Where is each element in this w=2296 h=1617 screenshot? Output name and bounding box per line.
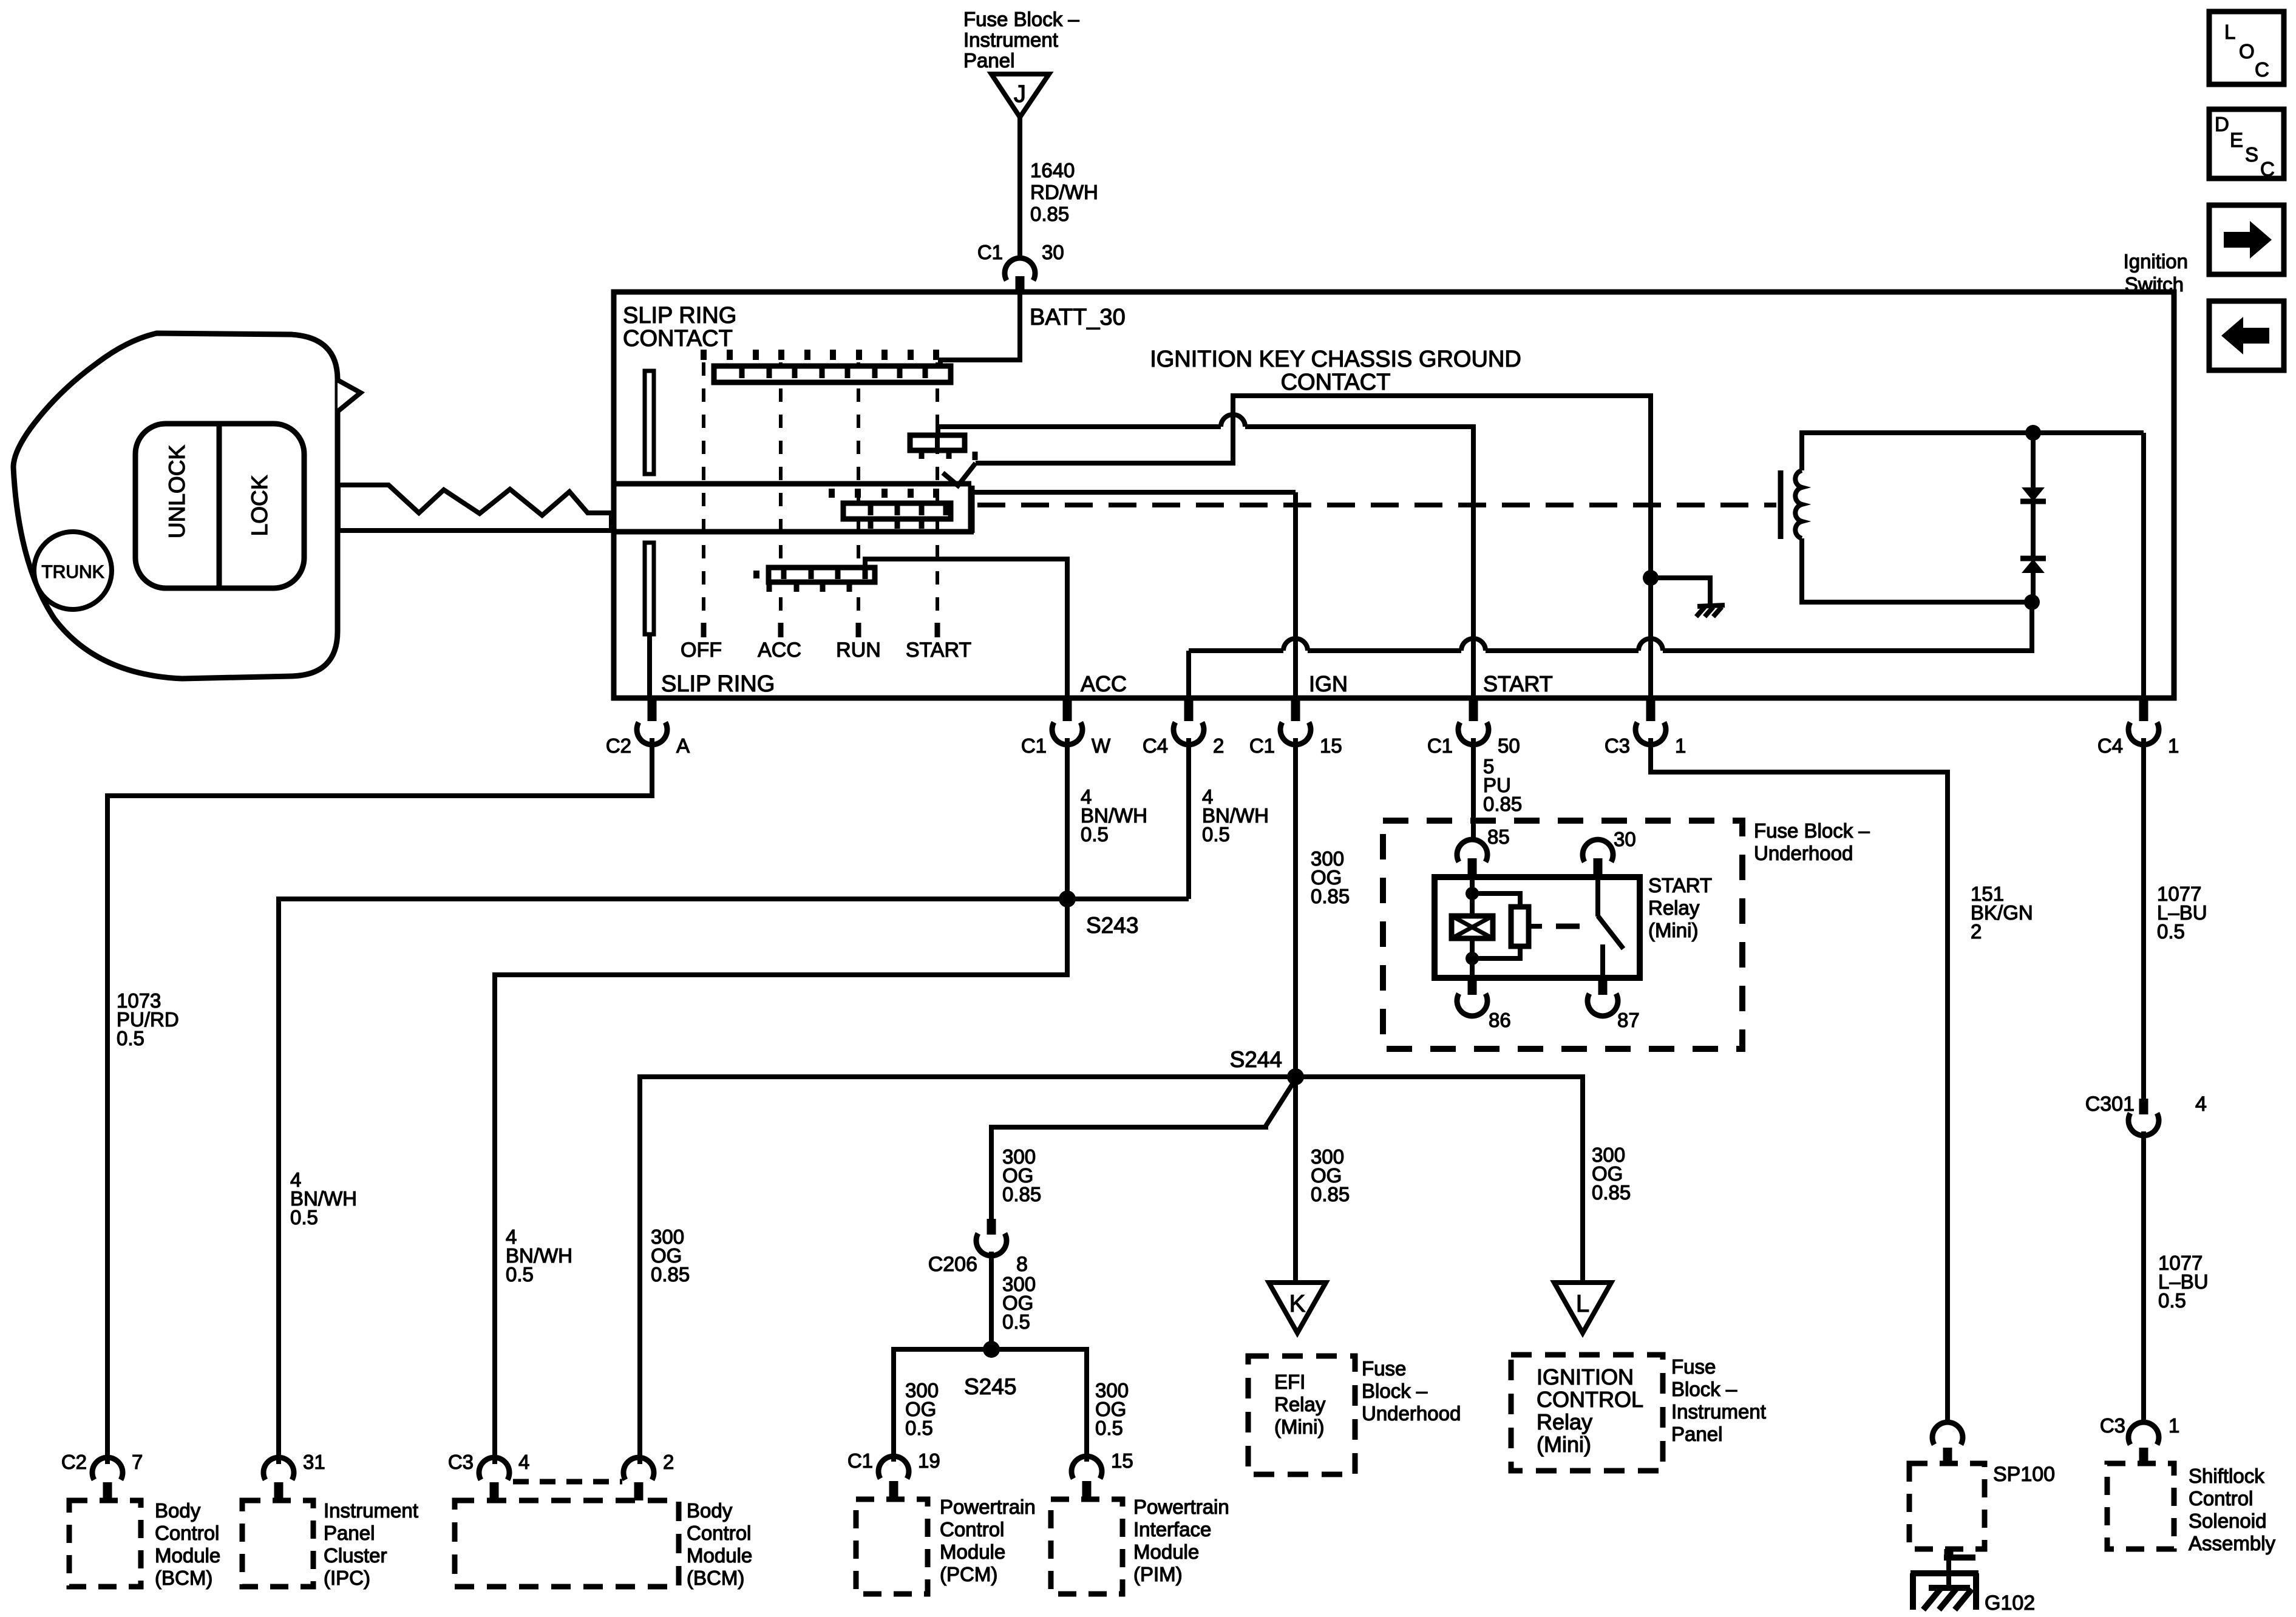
transponder exciter coil <box>1781 433 2144 602</box>
svg-text:87: 87 <box>1617 1009 1640 1031</box>
connector C4 pin 2 <box>1173 698 1204 745</box>
label: Powertrain Control Module (PCM) <box>940 1496 1036 1585</box>
svg-text:4: 4 <box>2195 1093 2207 1116</box>
svg-text:W: W <box>1092 734 1111 757</box>
svg-text:0.5: 0.5 <box>117 1027 144 1049</box>
wire: RUN bar to START output with hop over ground wire <box>938 427 1221 435</box>
svg-text:Panel: Panel <box>1671 1423 1722 1445</box>
svg-text:15: 15 <box>1320 734 1342 757</box>
svg-text:Solenoid: Solenoid <box>2189 1510 2266 1532</box>
svg-text:Control: Control <box>155 1522 219 1544</box>
wire: slip ring bar to C2 pin A <box>647 634 652 698</box>
svg-text:C4: C4 <box>1143 734 1168 757</box>
svg-text:Relay: Relay <box>1648 897 1700 919</box>
svg-text:C1: C1 <box>847 1449 873 1472</box>
svg-text:(Mini): (Mini) <box>1274 1415 1324 1438</box>
Powertrain Control Module dashed box <box>856 1499 928 1594</box>
ACC slip ring comb <box>756 568 875 592</box>
svg-text:Relay: Relay <box>1537 1409 1592 1434</box>
svg-text:0.85: 0.85 <box>1311 885 1350 907</box>
label: circuit 1073 PU/RD 0.5 <box>117 989 179 1049</box>
svg-text:1: 1 <box>2169 1414 2179 1437</box>
nav box LOC <box>2209 12 2284 84</box>
Body Control Module dashed box 1 <box>69 1500 141 1587</box>
wire: slot top to IGN output <box>971 490 1296 495</box>
svg-text:START: START <box>1483 671 1553 696</box>
svg-text:SP100: SP100 <box>1993 1463 2055 1486</box>
wire: rail down to C4 pin 2 <box>1186 651 1191 698</box>
svg-text:Fuse Block –: Fuse Block – <box>963 8 1079 30</box>
label: circuit 1077 L-BU 0.5 (lower) <box>2158 1252 2209 1312</box>
wire: IGN vertical to C1 pin 15 <box>1293 492 1298 698</box>
label: circuit 4 BN/WH 0.5 (C4/2 wire) <box>1202 785 1269 846</box>
svg-text:IGNITION KEY CHASSIS GROUND: IGNITION KEY CHASSIS GROUND <box>1150 347 1521 372</box>
connector C4 pin 1 <box>2128 698 2159 745</box>
connector C1 pin 15 (IGN) <box>1280 698 1311 745</box>
svg-text:Instrument: Instrument <box>1671 1400 1766 1423</box>
svg-text:Block –: Block – <box>1671 1378 1737 1400</box>
wire: triangle J down to connector C1 pin 30 <box>1017 117 1022 260</box>
label: Body Control Module (BCM) 2 <box>687 1499 752 1589</box>
START relay pin 87 connector <box>1588 978 1618 1016</box>
svg-text:50: 50 <box>1498 734 1520 757</box>
Instrument Panel Cluster dashed box <box>242 1500 313 1587</box>
wire: SP100 to G102 <box>1944 1549 1954 1558</box>
svg-text:(BCM): (BCM) <box>155 1567 212 1589</box>
label: circuit 1640 RD/WH 0.85 <box>1030 159 1098 225</box>
svg-text:CONTACT: CONTACT <box>623 326 733 351</box>
label: circuit 300 OG 0.85 (BCM pin2) <box>651 1225 690 1286</box>
connector pin 2 (BCM2) <box>623 1457 654 1500</box>
svg-text:2: 2 <box>1213 734 1224 757</box>
svg-text:A: A <box>676 734 690 757</box>
wire: S243 horizontal to IPC drop <box>279 899 1189 1464</box>
svg-text:S245: S245 <box>964 1374 1016 1399</box>
diode D2 (bottom, cathode down) <box>2020 501 2046 602</box>
svg-text:1: 1 <box>2168 734 2179 757</box>
svg-text:Cluster: Cluster <box>324 1544 387 1567</box>
svg-text:Fuse Block –: Fuse Block – <box>1754 819 1870 842</box>
label: circuit 300 OG 0.85 (IGN wire) <box>1311 847 1350 907</box>
svg-text:C3: C3 <box>2100 1414 2125 1437</box>
svg-text:CONTROL: CONTROL <box>1537 1387 1643 1412</box>
svg-text:SLIP RING: SLIP RING <box>623 303 736 328</box>
svg-text:START: START <box>1648 874 1712 897</box>
svg-text:2: 2 <box>1971 920 1982 943</box>
svg-text:Ignition: Ignition <box>2124 250 2188 273</box>
svg-text:Relay: Relay <box>1274 1393 1326 1415</box>
svg-text:C: C <box>2255 58 2269 81</box>
junction: coil bottom / diode bottom / rail <box>2024 594 2040 610</box>
svg-text:CONTACT: CONTACT <box>1281 370 1391 395</box>
label: circuit 4 BN/WH 0.5 (ACC wire) <box>1081 785 1147 846</box>
connector C1 pin 30 at ignition switch <box>1005 258 1035 292</box>
svg-text:(BCM): (BCM) <box>687 1567 744 1589</box>
wire: C4/1 to C301 <box>2141 738 2146 1100</box>
inline connector C206 pin 8 <box>976 1219 1007 1256</box>
svg-text:(PCM): (PCM) <box>940 1563 997 1585</box>
connector C2 pin 7 (BCM) <box>92 1457 123 1500</box>
ignition key chassis ground contact (V contact) <box>943 463 976 486</box>
svg-text:Module: Module <box>1133 1541 1199 1563</box>
svg-text:1: 1 <box>1675 734 1686 757</box>
svg-text:Body: Body <box>155 1499 201 1522</box>
svg-text:(Mini): (Mini) <box>1648 919 1698 941</box>
label: Fuse Block - Instrument Panel <box>963 8 1079 72</box>
svg-text:Control: Control <box>940 1518 1004 1541</box>
svg-text:0.5: 0.5 <box>506 1263 534 1286</box>
svg-text:OFF: OFF <box>681 639 722 662</box>
label: circuit 4 BN/WH 0.5 (IPC wire) <box>290 1168 357 1229</box>
svg-text:(Mini): (Mini) <box>1537 1432 1591 1457</box>
svg-text:0.85: 0.85 <box>1483 793 1522 815</box>
svg-text:0.5: 0.5 <box>1002 1310 1030 1333</box>
dashed key position line ACC <box>779 362 783 619</box>
START relay switch <box>1598 877 1623 978</box>
wire: S243 down and left to BCM C3/4 <box>495 899 1067 1464</box>
svg-text:Switch: Switch <box>2125 273 2184 296</box>
SP100 dashed box <box>1909 1463 1985 1549</box>
connector C1 pin W (ACC) <box>1052 698 1082 745</box>
svg-text:0.5: 0.5 <box>1202 823 1230 846</box>
svg-text:ACC: ACC <box>1081 671 1127 696</box>
svg-text:1640: 1640 <box>1030 159 1075 181</box>
key slot end bar <box>968 486 975 533</box>
inline connector C301 pin 4 <box>2128 1099 2159 1136</box>
label: circuit 300 OG 0.5 (PCM) <box>905 1379 939 1439</box>
Shiftlock Control Solenoid Assembly dashed box <box>2107 1463 2174 1549</box>
svg-text:S: S <box>2245 143 2258 166</box>
label: Fuse Block - Instrument Panel (ICR) <box>1671 1355 1766 1445</box>
wire: chassis ground vertical to C3 pin 1 <box>1648 575 1653 698</box>
dashed link between C3/4 and pin 2 <box>513 1479 622 1485</box>
label: circuit 300 OG 0.5 (PIM) <box>1095 1379 1129 1439</box>
label: IGNITION CONTROL Relay (Mini) <box>1537 1364 1643 1457</box>
START relay actuating link <box>1529 924 1542 929</box>
svg-text:EFI: EFI <box>1274 1371 1305 1393</box>
svg-text:(PIM): (PIM) <box>1133 1563 1183 1585</box>
label: Fuse Block - Underhood (EFI) <box>1362 1357 1461 1425</box>
svg-text:0.85: 0.85 <box>1311 1183 1350 1205</box>
svg-text:IGN: IGN <box>1309 671 1348 696</box>
wire: coil top to C4 pin 1 <box>2141 433 2146 698</box>
svg-text:0.5: 0.5 <box>1095 1417 1123 1439</box>
svg-text:RD/WH: RD/WH <box>1030 181 1098 203</box>
dashed key position line START <box>936 362 939 619</box>
svg-text:RUN: RUN <box>836 639 881 662</box>
svg-text:S243: S243 <box>1086 913 1138 938</box>
slip ring bar upper <box>645 371 654 474</box>
junction: ground branch <box>1643 570 1659 586</box>
splice S243 <box>1059 890 1076 907</box>
label: Ignition Switch <box>2124 250 2188 296</box>
wire: S244 horizontal to BCM pin 2 drop <box>640 1077 1296 1464</box>
junction: coil top / diode top <box>2025 425 2041 441</box>
wire: S245 to PCM C1/19 <box>894 1349 991 1462</box>
Fuse Block - Underhood dashed box (START relay) <box>1383 821 1742 1049</box>
svg-text:30: 30 <box>1614 828 1636 850</box>
svg-text:Control: Control <box>2189 1487 2253 1510</box>
svg-text:SLIP RING: SLIP RING <box>661 671 775 697</box>
svg-text:0.85: 0.85 <box>1002 1183 1041 1205</box>
svg-text:Module: Module <box>155 1544 220 1567</box>
wire: C3/1 to SP100 <box>1651 738 1948 1423</box>
label: circuit 300 OG 0.85 (C206 branch) <box>1002 1145 1041 1205</box>
Powertrain Interface Module dashed box <box>1051 1499 1123 1594</box>
label: Powertrain Interface Module (PIM) <box>1133 1496 1229 1585</box>
svg-text:J: J <box>1014 81 1026 107</box>
START relay pin 30 connector <box>1583 839 1613 877</box>
svg-text:0.85: 0.85 <box>1592 1181 1631 1204</box>
wire: S244 to triangle L (ignition control relay) <box>1296 1077 1583 1283</box>
connector pin 31 (IPC) <box>263 1457 294 1500</box>
label: EFI Relay (Mini) <box>1274 1371 1326 1438</box>
svg-text:7: 7 <box>132 1451 143 1473</box>
svg-text:L: L <box>2224 21 2235 43</box>
dashed key position line OFF <box>702 362 705 619</box>
splice S244 <box>1287 1068 1304 1085</box>
svg-text:C4: C4 <box>2097 734 2123 757</box>
wire: C1/15 to splice S244 <box>1293 738 1298 1077</box>
wire: C301 to shiftlock C3/1 <box>2141 1131 2146 1423</box>
svg-text:0.85: 0.85 <box>1030 203 1069 225</box>
svg-text:C: C <box>2260 158 2275 180</box>
label: circuit 1077 L-BU 0.5 (upper) <box>2157 883 2207 943</box>
svg-text:L: L <box>1576 1290 1589 1317</box>
EFI Relay (Mini) dashed box <box>1248 1356 1355 1474</box>
svg-text:Module: Module <box>940 1541 1005 1563</box>
label: Fuse Block - Underhood <box>1754 819 1870 864</box>
wire: C2/A to BCM C2/7 <box>107 738 652 1464</box>
label: circuit 5 PU 0.85 <box>1483 755 1522 815</box>
label: Body Control Module (BCM) <box>155 1499 220 1589</box>
wire: junction to chassis ground symbol <box>1651 578 1710 604</box>
svg-text:ACC: ACC <box>758 639 801 662</box>
svg-text:85: 85 <box>1487 825 1510 848</box>
svg-text:Underhood: Underhood <box>1362 1402 1461 1425</box>
svg-text:4: 4 <box>518 1451 529 1473</box>
svg-text:Powertrain: Powertrain <box>1133 1496 1229 1518</box>
svg-text:TRUNK: TRUNK <box>41 562 104 582</box>
dashed key position line RUN <box>857 362 860 619</box>
label: START Relay (Mini) <box>1648 874 1712 941</box>
svg-text:C1: C1 <box>977 241 1003 263</box>
svg-text:0.5: 0.5 <box>905 1417 933 1439</box>
slip ring bar lower <box>645 543 654 634</box>
wire: C1/W to splice S243 <box>1065 738 1070 899</box>
svg-text:Shiftlock: Shiftlock <box>2189 1465 2264 1487</box>
svg-text:31: 31 <box>303 1451 325 1473</box>
chassis ground symbol (ignition switch) <box>1696 605 1725 617</box>
connector C1 pin 19 (PCM) <box>878 1456 909 1499</box>
svg-text:Interface: Interface <box>1133 1518 1211 1541</box>
ignition key shaft dashed line <box>977 503 1776 507</box>
connector C3 pin 1 <box>1635 698 1666 745</box>
RUN contact bar <box>910 435 975 460</box>
svg-text:Module: Module <box>687 1544 752 1567</box>
START relay resistor <box>1511 907 1529 946</box>
ground G102 symbol <box>1911 1558 1978 1610</box>
label: Shiftlock Control Solenoid Assembly <box>2189 1465 2276 1554</box>
key channel top line <box>614 481 971 487</box>
middle slip ring comb (ignition key) <box>832 489 951 529</box>
svg-text:C1: C1 <box>1427 734 1453 757</box>
svg-text:15: 15 <box>1111 1449 1133 1472</box>
wire: S245 to PIM pin 15 <box>991 1349 1087 1462</box>
svg-text:C2: C2 <box>61 1451 87 1473</box>
svg-text:START: START <box>906 639 971 662</box>
svg-text:C301: C301 <box>2085 1093 2135 1116</box>
START relay box <box>1435 877 1640 978</box>
battery slip ring contact comb BATT_30 <box>704 350 951 382</box>
START relay pin 85 connector <box>1457 839 1487 877</box>
internal START rail with hops <box>1189 648 1283 653</box>
svg-text:Assembly: Assembly <box>2189 1532 2276 1554</box>
svg-text:G102: G102 <box>1985 1592 2035 1615</box>
nav box arrow right <box>2209 205 2284 274</box>
splice S245 <box>983 1341 1000 1358</box>
svg-text:Instrument: Instrument <box>324 1499 418 1522</box>
label: IGNITION KEY CHASSIS GROUND CONTACT <box>1150 347 1521 395</box>
svg-text:Control: Control <box>687 1522 751 1544</box>
diode D1 (top, cathode up) <box>2020 433 2046 501</box>
svg-text:0.5: 0.5 <box>290 1206 318 1229</box>
svg-text:Instrument: Instrument <box>963 29 1058 51</box>
svg-text:IGNITION: IGNITION <box>1537 1364 1634 1389</box>
svg-text:S244: S244 <box>1230 1047 1282 1072</box>
svg-text:C206: C206 <box>928 1253 977 1276</box>
svg-text:Underhood: Underhood <box>1754 842 1853 864</box>
svg-text:Panel: Panel <box>963 49 1014 72</box>
label: circuit 300 OG 0.85 (L wire) <box>1592 1144 1631 1204</box>
svg-text:19: 19 <box>918 1449 940 1472</box>
key blade <box>338 485 611 531</box>
connector SP100 top <box>1932 1422 1963 1463</box>
svg-text:LOCK: LOCK <box>247 475 272 536</box>
key channel bottom line <box>614 529 974 535</box>
wire: ACC comb to C1 pin W <box>865 559 1067 698</box>
label: SLIP RING CONTACT <box>623 303 736 351</box>
svg-text:30: 30 <box>1042 241 1064 263</box>
nav box arrow left <box>2209 301 2284 370</box>
svg-text:BATT_30: BATT_30 <box>1030 305 1126 330</box>
grid triangle L <box>1554 1283 1611 1333</box>
svg-text:0.5: 0.5 <box>1081 823 1109 846</box>
connector C3 pin 4 (BCM2) <box>479 1457 509 1500</box>
svg-text:C3: C3 <box>448 1451 474 1473</box>
svg-text:(IPC): (IPC) <box>324 1567 370 1589</box>
svg-text:C1: C1 <box>1021 734 1047 757</box>
key fob remote transmitter <box>13 333 361 679</box>
svg-text:86: 86 <box>1489 1009 1511 1031</box>
label: Instrument Panel Cluster (IPC) <box>324 1499 418 1589</box>
svg-text:D: D <box>2215 113 2229 135</box>
wire: C4/2 down to S243 horizontal <box>1186 738 1191 899</box>
grid triangle J to Fuse Block Instrument Panel <box>991 74 1049 117</box>
svg-text:Block –: Block – <box>1362 1380 1428 1402</box>
svg-text:Fuse: Fuse <box>1671 1355 1716 1378</box>
svg-text:C2: C2 <box>606 734 631 757</box>
wire: V contact to chassis ground point <box>976 396 1651 575</box>
label: circuit 4 BN/WH 0.5 (BCM wire) <box>506 1225 572 1286</box>
wire: S244 to triangle K (EFI relay) <box>1293 1077 1298 1283</box>
svg-text:C3: C3 <box>1605 734 1630 757</box>
connector C1 pin 50 (START) <box>1458 698 1489 745</box>
svg-text:Fuse: Fuse <box>1362 1357 1406 1380</box>
svg-text:Panel: Panel <box>324 1522 375 1544</box>
ignition switch box <box>614 292 2174 698</box>
connector C2 pin A (SLIP RING) <box>637 698 667 745</box>
svg-text:Body: Body <box>687 1499 733 1522</box>
svg-text:O: O <box>2239 40 2255 63</box>
svg-text:UNLOCK: UNLOCK <box>165 445 189 539</box>
label: circuit 151 BK/GN 2 <box>1971 883 2033 943</box>
svg-text:Powertrain: Powertrain <box>940 1496 1036 1518</box>
svg-text:0.85: 0.85 <box>651 1263 690 1286</box>
svg-text:C1: C1 <box>1249 734 1275 757</box>
wire: C1/50 to START relay pin 85 <box>1471 738 1476 841</box>
label: circuit 300 OG 0.5 <box>1002 1273 1036 1333</box>
svg-text:2: 2 <box>663 1451 674 1473</box>
wire: C206 to splice S245 <box>989 1252 994 1349</box>
Body Control Module dashed box 2 <box>455 1500 679 1587</box>
wire: BATT_30 from C1/30 to battery comb <box>940 292 1020 366</box>
IGNITION CONTROL Relay (Mini) dashed box <box>1511 1355 1663 1471</box>
label: circuit 300 OG 0.85 (K wire) <box>1311 1145 1350 1205</box>
connector C3 pin 1 (shiftlock) <box>2128 1422 2159 1463</box>
START relay coil branch <box>1452 877 1520 978</box>
svg-text:E: E <box>2230 129 2243 151</box>
svg-text:K: K <box>1289 1290 1306 1317</box>
START relay pin 86 connector <box>1457 978 1487 1016</box>
wire: S244 jog to C206 <box>991 1079 1296 1220</box>
grid triangle K <box>1269 1283 1326 1333</box>
svg-text:0.5: 0.5 <box>2157 920 2185 943</box>
nav box DESC <box>2209 109 2284 180</box>
connector pin 15 (PIM) <box>1072 1456 1102 1499</box>
svg-text:0.5: 0.5 <box>2158 1289 2186 1312</box>
